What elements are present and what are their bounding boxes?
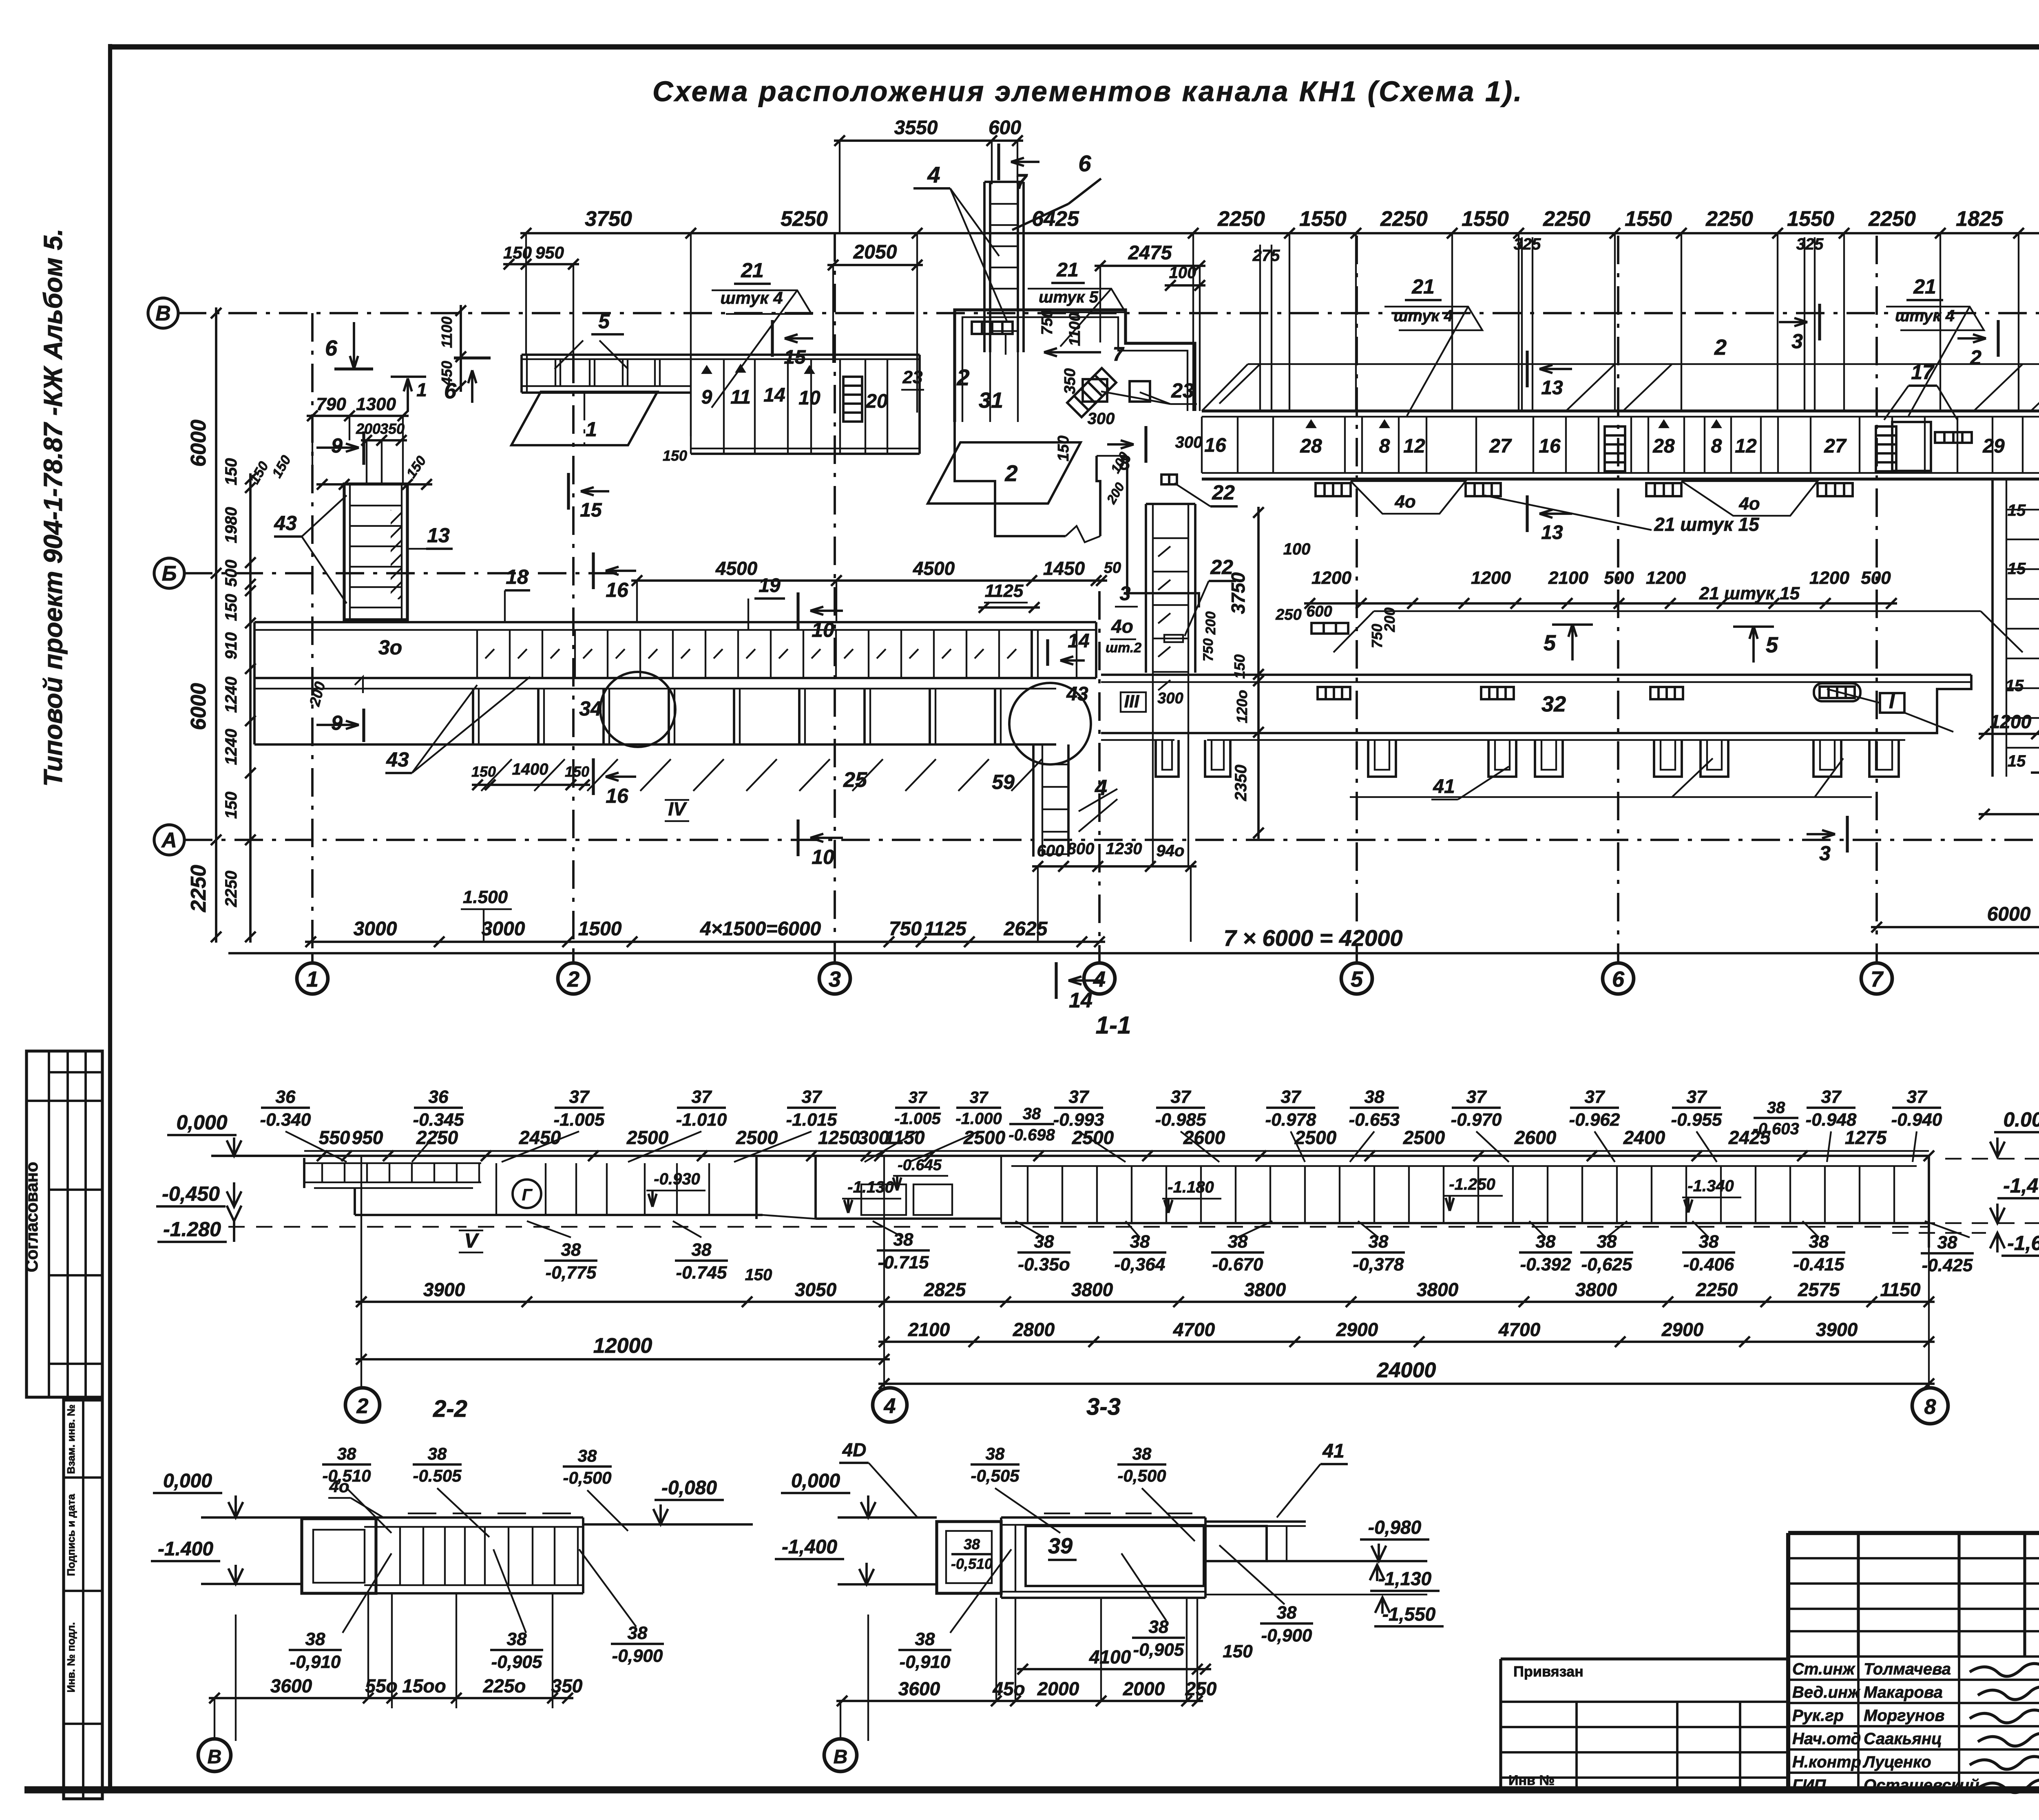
svg-text:-0.955: -0.955	[1671, 1110, 1722, 1130]
svg-text:2500: 2500	[1294, 1127, 1337, 1148]
svg-text:200: 200	[1104, 480, 1127, 506]
svg-text:38: 38	[1809, 1232, 1829, 1252]
svg-text:Толмачева: Толмачева	[1864, 1660, 1951, 1678]
svg-text:6000: 6000	[187, 420, 210, 467]
svg-text:500: 500	[1861, 568, 1891, 588]
svg-text:6000: 6000	[187, 683, 210, 730]
svg-text:-1.000: -1.000	[955, 1110, 1002, 1128]
svg-text:22: 22	[1212, 481, 1235, 504]
svg-text:2500: 2500	[1072, 1127, 1114, 1148]
svg-text:38: 38	[507, 1629, 527, 1649]
svg-text:37: 37	[692, 1087, 712, 1107]
svg-text:-0,364: -0,364	[1115, 1255, 1165, 1274]
svg-text:-0,450: -0,450	[162, 1182, 220, 1205]
svg-text:38: 38	[428, 1444, 447, 1463]
svg-text:19: 19	[759, 575, 781, 596]
svg-text:4о: 4о	[1394, 492, 1415, 512]
svg-text:-0,900: -0,900	[1261, 1626, 1312, 1646]
svg-text:4500: 4500	[913, 558, 955, 579]
svg-text:38: 38	[1369, 1232, 1389, 1252]
svg-text:6: 6	[1612, 967, 1625, 992]
svg-text:2250: 2250	[222, 871, 240, 908]
svg-text:25: 25	[843, 768, 867, 792]
svg-text:2250: 2250	[1217, 207, 1265, 231]
svg-text:21: 21	[741, 259, 764, 282]
svg-text:4: 4	[927, 162, 940, 188]
svg-text:37: 37	[1171, 1087, 1192, 1107]
svg-text:24000: 24000	[1377, 1358, 1436, 1382]
svg-text:Рук.гр: Рук.гр	[1792, 1707, 1844, 1725]
svg-text:III: III	[1124, 691, 1139, 711]
svg-text:Б: Б	[162, 562, 177, 585]
svg-text:9: 9	[331, 711, 343, 734]
svg-text:2400: 2400	[1623, 1127, 1665, 1148]
svg-text:-0,625: -0,625	[1581, 1255, 1632, 1274]
svg-text:Согласовано: Согласовано	[22, 1162, 41, 1272]
svg-text:10: 10	[812, 846, 834, 868]
svg-text:2825: 2825	[924, 1279, 966, 1300]
svg-text:2250: 2250	[1705, 207, 1753, 231]
svg-text:150: 150	[269, 453, 294, 480]
svg-text:38: 38	[1767, 1099, 1785, 1117]
svg-text:300: 300	[1088, 410, 1115, 428]
svg-text:28: 28	[1300, 435, 1322, 457]
svg-text:Привязан: Привязан	[1513, 1663, 1583, 1680]
svg-text:5250: 5250	[781, 207, 828, 231]
svg-text:325: 325	[1796, 235, 1824, 253]
svg-text:43: 43	[274, 512, 297, 535]
svg-text:38: 38	[1597, 1232, 1617, 1252]
svg-text:800: 800	[1067, 840, 1095, 858]
svg-text:3о: 3о	[378, 636, 402, 659]
svg-text:150: 150	[1055, 435, 1072, 461]
svg-text:12000: 12000	[593, 1334, 652, 1358]
svg-text:2500: 2500	[736, 1127, 778, 1148]
svg-text:Моргунов: Моргунов	[1864, 1707, 1945, 1725]
svg-text:1300: 1300	[356, 394, 396, 414]
svg-text:3: 3	[1120, 583, 1131, 605]
svg-text:16: 16	[1539, 435, 1561, 457]
svg-text:-0.415: -0.415	[1794, 1255, 1844, 1274]
svg-text:штук 4: штук 4	[1895, 307, 1955, 325]
svg-text:3900: 3900	[423, 1279, 465, 1300]
svg-text:7: 7	[1871, 967, 1884, 992]
svg-text:-0,080: -0,080	[661, 1477, 717, 1499]
svg-text:2350: 2350	[1232, 765, 1250, 802]
svg-text:2050: 2050	[853, 241, 897, 263]
svg-text:2575: 2575	[1798, 1279, 1840, 1300]
svg-text:10: 10	[798, 387, 820, 409]
svg-text:3800: 3800	[1071, 1279, 1113, 1300]
svg-text:-0,510: -0,510	[951, 1555, 993, 1572]
svg-text:38: 38	[578, 1446, 597, 1465]
svg-text:1825: 1825	[1956, 207, 2004, 231]
svg-text:37: 37	[970, 1089, 989, 1107]
svg-text:1400: 1400	[512, 760, 548, 778]
svg-text:0,000: 0,000	[791, 1470, 840, 1492]
svg-text:1550: 1550	[1787, 207, 1834, 231]
svg-text:4: 4	[884, 1394, 896, 1418]
svg-text:59: 59	[992, 771, 1015, 793]
svg-text:-0.645: -0.645	[898, 1157, 942, 1174]
svg-text:1275: 1275	[1845, 1127, 1887, 1148]
svg-text:7: 7	[1015, 170, 1028, 194]
svg-text:750: 750	[1201, 638, 1216, 662]
svg-text:38: 38	[1699, 1232, 1719, 1252]
svg-text:-0,905: -0,905	[1133, 1640, 1184, 1660]
svg-text:Н.контр: Н.контр	[1792, 1753, 1861, 1771]
svg-text:1500: 1500	[578, 918, 622, 940]
svg-text:37: 37	[1687, 1087, 1707, 1107]
svg-text:0,000: 0,000	[163, 1470, 212, 1492]
svg-text:750: 750	[1039, 309, 1056, 335]
svg-text:600: 600	[1306, 603, 1332, 620]
svg-text:1125: 1125	[924, 918, 967, 940]
svg-text:1: 1	[586, 418, 597, 441]
svg-text:32: 32	[1541, 692, 1566, 716]
svg-text:3-3: 3-3	[1086, 1394, 1121, 1420]
svg-text:3900: 3900	[1816, 1319, 1858, 1340]
svg-text:3550: 3550	[894, 117, 938, 139]
svg-text:41: 41	[1433, 776, 1455, 797]
svg-text:3600: 3600	[270, 1675, 312, 1696]
svg-text:15: 15	[580, 499, 602, 521]
svg-text:2: 2	[956, 364, 969, 390]
svg-text:15: 15	[2008, 501, 2026, 519]
svg-text:2900: 2900	[1336, 1319, 1378, 1340]
svg-text:3050: 3050	[795, 1279, 837, 1300]
svg-text:4: 4	[1093, 967, 1106, 992]
svg-text:37: 37	[1907, 1087, 1928, 1107]
svg-text:36: 36	[276, 1087, 296, 1107]
svg-text:1550: 1550	[1462, 207, 1509, 231]
svg-text:-0.698: -0.698	[1008, 1126, 1055, 1144]
svg-text:325: 325	[1514, 235, 1541, 253]
svg-text:38: 38	[1130, 1232, 1150, 1252]
svg-text:4о: 4о	[1111, 616, 1133, 637]
svg-text:37: 37	[1281, 1087, 1302, 1107]
svg-text:штук 4: штук 4	[1393, 307, 1453, 325]
svg-text:-1.130: -1.130	[847, 1178, 893, 1196]
svg-text:9: 9	[331, 434, 343, 457]
svg-text:16: 16	[606, 579, 629, 601]
svg-text:16: 16	[1204, 435, 1226, 456]
svg-text:4700: 4700	[1498, 1319, 1541, 1340]
svg-text:Г: Г	[522, 1186, 533, 1204]
svg-text:2425: 2425	[1728, 1127, 1771, 1148]
svg-text:-0.970: -0.970	[1451, 1110, 1502, 1130]
svg-text:6: 6	[1078, 150, 1091, 176]
svg-text:150: 150	[222, 458, 240, 486]
svg-text:13: 13	[1541, 522, 1563, 543]
svg-text:29: 29	[1982, 435, 2005, 457]
svg-text:3750: 3750	[1227, 572, 1249, 614]
svg-text:3600: 3600	[898, 1678, 940, 1699]
svg-text:1125: 1125	[985, 581, 1024, 601]
svg-text:-0.340: -0.340	[260, 1110, 311, 1130]
svg-text:-0.392: -0.392	[1520, 1255, 1571, 1274]
svg-text:V: V	[464, 1229, 479, 1252]
svg-text:0,000: 0,000	[176, 1111, 227, 1134]
svg-text:23: 23	[1171, 379, 1194, 402]
svg-text:28: 28	[1652, 435, 1675, 457]
svg-text:37: 37	[802, 1087, 823, 1107]
svg-text:-0.35о: -0.35о	[1018, 1255, 1070, 1274]
svg-text:37: 37	[1069, 1087, 1090, 1107]
svg-text:38: 38	[1364, 1087, 1384, 1107]
svg-text:120о: 120о	[1234, 690, 1250, 723]
svg-text:275: 275	[1252, 247, 1280, 265]
svg-text:5: 5	[1544, 631, 1556, 655]
svg-text:-0.962: -0.962	[1569, 1110, 1620, 1130]
svg-text:2500: 2500	[1403, 1127, 1445, 1148]
svg-text:-1.180: -1.180	[1168, 1178, 1214, 1196]
svg-text:16: 16	[606, 784, 629, 807]
svg-text:ГИП: ГИП	[1792, 1776, 1826, 1794]
svg-text:-0,910: -0,910	[900, 1652, 951, 1672]
svg-text:4о: 4о	[1738, 494, 1760, 514]
svg-text:150: 150	[222, 594, 240, 621]
svg-text:38: 38	[1132, 1444, 1152, 1463]
svg-text:-0.670: -0.670	[1212, 1255, 1263, 1274]
svg-text:2250: 2250	[416, 1127, 458, 1148]
svg-text:-0.406: -0.406	[1683, 1255, 1734, 1274]
svg-text:2250: 2250	[1868, 207, 1916, 231]
svg-text:3800: 3800	[1244, 1279, 1286, 1300]
svg-text:1980: 1980	[222, 507, 240, 543]
svg-text:150: 150	[403, 453, 429, 481]
svg-text:-0,905: -0,905	[491, 1652, 542, 1672]
svg-text:300: 300	[1175, 433, 1203, 451]
svg-text:250: 250	[1185, 1678, 1217, 1699]
svg-text:-1,400: -1,400	[782, 1536, 837, 1558]
svg-text:500: 500	[222, 560, 240, 587]
svg-text:790: 790	[316, 394, 346, 414]
svg-text:1200: 1200	[1311, 568, 1351, 588]
svg-text:5: 5	[598, 310, 610, 333]
svg-text:300: 300	[1157, 690, 1183, 707]
svg-text:3: 3	[1791, 330, 1803, 353]
svg-text:150: 150	[471, 763, 496, 780]
svg-text:15: 15	[2006, 677, 2024, 695]
svg-text:94о: 94о	[1157, 842, 1185, 860]
svg-text:4100: 4100	[1089, 1646, 1131, 1668]
svg-text:7: 7	[1113, 344, 1125, 365]
svg-text:150: 150	[745, 1266, 772, 1284]
svg-text:-1,600: -1,600	[2007, 1232, 2039, 1255]
svg-text:IV: IV	[668, 798, 687, 819]
svg-text:950: 950	[535, 243, 564, 262]
svg-text:14: 14	[1069, 989, 1092, 1012]
svg-text:38: 38	[893, 1230, 913, 1250]
svg-text:2500: 2500	[626, 1127, 669, 1148]
svg-text:-1.400: -1.400	[158, 1538, 213, 1560]
svg-text:Инв №: Инв №	[1508, 1773, 1555, 1788]
svg-text:1450: 1450	[1043, 558, 1085, 579]
svg-text:18: 18	[506, 565, 529, 588]
svg-text:350: 350	[380, 420, 405, 437]
svg-text:1230: 1230	[1106, 840, 1142, 858]
svg-text:-0.505: -0.505	[413, 1466, 462, 1485]
svg-text:2: 2	[567, 967, 579, 992]
svg-text:27: 27	[1824, 435, 1847, 457]
svg-text:-1.280: -1.280	[163, 1218, 221, 1241]
svg-text:-1,130: -1,130	[1378, 1568, 1432, 1589]
svg-text:950: 950	[352, 1127, 383, 1148]
svg-text:15: 15	[2008, 752, 2026, 770]
svg-text:2000: 2000	[1037, 1678, 1079, 1699]
svg-text:-1.005: -1.005	[554, 1110, 605, 1130]
svg-text:21: 21	[1056, 259, 1078, 281]
svg-text:1240: 1240	[222, 729, 240, 765]
svg-text:-1.010: -1.010	[676, 1110, 727, 1130]
svg-text:2: 2	[356, 1394, 369, 1418]
svg-text:-0,910: -0,910	[290, 1652, 341, 1672]
svg-text:38: 38	[1034, 1232, 1054, 1252]
svg-text:8: 8	[1711, 435, 1722, 457]
svg-text:-1.250: -1.250	[1449, 1175, 1495, 1193]
svg-text:38: 38	[628, 1623, 648, 1643]
svg-text:Нач.отд: Нач.отд	[1792, 1730, 1861, 1748]
svg-text:500: 500	[1604, 568, 1634, 588]
svg-text:12: 12	[1735, 435, 1757, 457]
svg-text:10: 10	[812, 618, 834, 641]
svg-text:37: 37	[1466, 1087, 1487, 1107]
svg-text:Схема расположения элемент: Схема расположения элементов канала КН1 …	[652, 75, 1524, 107]
svg-text:38: 38	[1023, 1105, 1041, 1123]
svg-text:2600: 2600	[1514, 1127, 1557, 1148]
svg-text:225о: 225о	[483, 1675, 526, 1696]
svg-text:15: 15	[2008, 560, 2026, 578]
svg-text:15оо: 15оо	[402, 1675, 446, 1696]
svg-text:Макарова: Макарова	[1864, 1683, 1943, 1701]
svg-text:4500: 4500	[715, 558, 758, 579]
svg-text:36: 36	[429, 1087, 449, 1107]
svg-text:В: В	[834, 1746, 848, 1768]
svg-text:шт.2: шт.2	[1106, 640, 1141, 656]
svg-text:350: 350	[551, 1675, 583, 1696]
svg-text:38: 38	[337, 1444, 356, 1463]
svg-text:38: 38	[305, 1629, 325, 1649]
svg-text:750: 750	[889, 918, 922, 940]
svg-text:38: 38	[964, 1536, 980, 1553]
svg-text:21: 21	[1411, 275, 1435, 298]
svg-text:2: 2	[1970, 346, 1982, 369]
svg-text:-0,378: -0,378	[1353, 1255, 1404, 1274]
svg-text:50: 50	[1104, 559, 1121, 576]
svg-text:9: 9	[701, 387, 712, 408]
svg-text:1: 1	[306, 967, 318, 992]
svg-text:2625: 2625	[1004, 918, 1048, 940]
svg-text:2800: 2800	[1013, 1319, 1055, 1340]
svg-text:37: 37	[1821, 1087, 1842, 1107]
svg-text:-0.745: -0.745	[676, 1263, 727, 1283]
svg-text:45о: 45о	[992, 1678, 1025, 1699]
svg-text:17: 17	[1911, 361, 1935, 384]
svg-text:3750: 3750	[585, 207, 632, 231]
svg-text:-1.340: -1.340	[1687, 1177, 1734, 1195]
svg-text:3: 3	[829, 967, 841, 992]
svg-text:4700: 4700	[1173, 1319, 1215, 1340]
svg-text:100: 100	[1169, 264, 1196, 282]
svg-text:38: 38	[915, 1629, 935, 1649]
svg-text:4о: 4о	[329, 1477, 349, 1496]
svg-text:12: 12	[1403, 435, 1425, 457]
svg-text:-0.940: -0.940	[1891, 1110, 1942, 1130]
svg-text:4×1500=6000: 4×1500=6000	[700, 918, 821, 940]
svg-text:37: 37	[569, 1087, 590, 1107]
svg-text:39: 39	[1048, 1534, 1073, 1558]
svg-text:34: 34	[579, 697, 602, 720]
svg-text:150: 150	[503, 243, 532, 262]
svg-text:-1,400: -1,400	[2003, 1174, 2039, 1197]
svg-text:2250: 2250	[187, 865, 210, 912]
svg-text:Взам. инв. №: Взам. инв. №	[65, 1405, 77, 1474]
svg-text:1550: 1550	[1625, 207, 1672, 231]
svg-text:0.000: 0.000	[2003, 1108, 2039, 1131]
svg-text:200: 200	[306, 680, 328, 708]
svg-text:550: 550	[319, 1127, 350, 1148]
svg-text:600: 600	[1037, 842, 1064, 860]
svg-text:6000: 6000	[1987, 903, 2031, 925]
svg-text:150: 150	[565, 763, 589, 780]
svg-text:-0.715: -0.715	[878, 1252, 929, 1272]
svg-text:1100: 1100	[1066, 313, 1084, 346]
svg-text:150: 150	[1223, 1641, 1253, 1661]
svg-text:1150: 1150	[1880, 1279, 1921, 1300]
svg-text:8: 8	[1924, 1395, 1936, 1419]
svg-text:2900: 2900	[1661, 1319, 1704, 1340]
svg-text:31: 31	[979, 388, 1003, 413]
svg-text:-0,980: -0,980	[1368, 1517, 1422, 1538]
svg-text:37: 37	[909, 1089, 927, 1107]
svg-text:1250: 1250	[818, 1127, 860, 1148]
svg-text:38: 38	[692, 1240, 712, 1260]
svg-text:Осташевский: Осташевский	[1864, 1776, 1979, 1794]
svg-text:В: В	[208, 1746, 222, 1768]
svg-text:3800: 3800	[1417, 1279, 1459, 1300]
svg-text:2: 2	[1714, 335, 1727, 360]
svg-text:910: 910	[222, 632, 240, 660]
svg-text:14: 14	[763, 384, 785, 406]
svg-text:38: 38	[1277, 1603, 1297, 1623]
svg-text:27: 27	[1489, 435, 1512, 457]
svg-text:2450: 2450	[519, 1127, 561, 1148]
svg-text:Луценко: Луценко	[1862, 1753, 1931, 1771]
svg-text:2475: 2475	[1128, 242, 1172, 264]
svg-text:11: 11	[730, 387, 751, 408]
svg-text:-0,900: -0,900	[612, 1646, 663, 1666]
svg-text:20: 20	[865, 391, 888, 412]
svg-text:4D: 4D	[842, 1439, 867, 1460]
svg-text:21 штук 15: 21 штук 15	[1654, 514, 1760, 535]
svg-text:7 × 6000 = 42000: 7 × 6000 = 42000	[1223, 925, 1402, 951]
svg-text:3000: 3000	[482, 918, 525, 940]
svg-text:1: 1	[416, 379, 427, 400]
svg-text:Саакьянц: Саакьянц	[1864, 1730, 1942, 1748]
svg-text:1-1: 1-1	[1096, 1012, 1131, 1039]
svg-text:Ст.инж: Ст.инж	[1792, 1660, 1856, 1678]
svg-text:Инв. № подл.: Инв. № подл.	[65, 1622, 77, 1693]
svg-text:1200: 1200	[1471, 568, 1511, 588]
svg-text:2500: 2500	[963, 1127, 1006, 1148]
svg-text:1200: 1200	[1809, 568, 1849, 588]
svg-text:-1.005: -1.005	[894, 1110, 941, 1128]
svg-text:-0,500: -0,500	[563, 1468, 611, 1487]
svg-text:37: 37	[1585, 1087, 1606, 1107]
svg-text:1550: 1550	[1299, 207, 1347, 231]
svg-text:21: 21	[1913, 275, 1936, 298]
